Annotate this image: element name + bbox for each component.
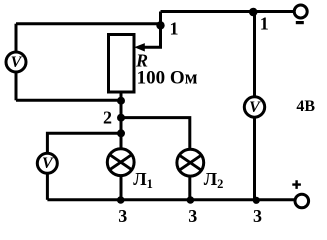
wire node1 vertical down to wiper level xyxy=(143,12,161,48)
rheostat R body xyxy=(109,35,135,93)
svg-text:100 Ом: 100 Ом xyxy=(137,68,198,89)
voltmeter V1 xyxy=(6,52,26,72)
wire rheostat bottom lead xyxy=(120,92,123,149)
svg-text:3: 3 xyxy=(188,206,197,226)
junction dot lower-left loop xyxy=(117,129,125,137)
node 2 junction dot xyxy=(117,114,125,122)
lamp L2 xyxy=(177,149,204,176)
minus sign xyxy=(296,21,304,24)
wire right branch upper xyxy=(253,12,256,97)
lamp L1 xyxy=(107,149,134,176)
node 3 dot lamp L1 xyxy=(117,196,125,204)
wire bottom rail xyxy=(47,198,295,201)
node 1 junction dot xyxy=(156,21,164,29)
wire left loop top (V1 top to node 1) xyxy=(16,22,161,25)
wire right branch lower xyxy=(253,117,256,200)
wire top rail (node1 to minus terminal) xyxy=(161,10,295,13)
terminal minus xyxy=(294,5,307,18)
svg-text:2: 2 xyxy=(103,108,112,128)
terminal plus xyxy=(295,194,309,208)
wire lamp L1 bottom lead xyxy=(120,175,123,200)
node 1 right junction dot xyxy=(249,8,258,17)
node 3 dot lamp L2 xyxy=(187,196,195,204)
wire lower-left loop left vertical lower xyxy=(46,173,49,200)
plus sign xyxy=(292,180,301,189)
wire left loop left vertical lower xyxy=(15,72,18,101)
voltmeter V2 xyxy=(37,153,57,173)
wire lower-left loop top xyxy=(47,133,121,153)
svg-text:V: V xyxy=(249,99,261,116)
svg-text:3: 3 xyxy=(253,206,262,226)
svg-text:3: 3 xyxy=(118,206,127,226)
wiper arrowhead xyxy=(134,43,145,51)
voltmeter V3 xyxy=(244,97,264,117)
wire left loop bottom (to node above rheostat bottom) xyxy=(16,99,121,102)
wire left loop left vertical upper xyxy=(15,24,18,53)
svg-text:1: 1 xyxy=(170,18,179,38)
wire node2 branch to lamp L2 xyxy=(121,118,190,150)
svg-text:V: V xyxy=(11,54,23,71)
svg-text:V: V xyxy=(42,155,54,172)
wire lamp L2 bottom lead xyxy=(188,176,191,200)
svg-text:1: 1 xyxy=(260,14,269,34)
node 3 dot right branch xyxy=(253,197,260,204)
svg-text:4В: 4В xyxy=(296,98,315,115)
junction dot rheostat bottom xyxy=(117,97,125,105)
